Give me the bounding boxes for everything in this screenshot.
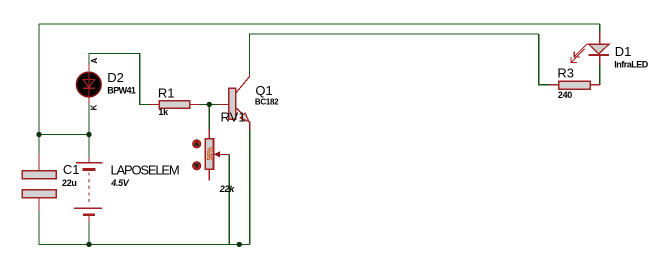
pin D2 cathode [88, 97, 90, 104]
pin D2 anode [88, 64, 90, 71]
pin RV1 top [208, 129, 210, 139]
potentiometer RV1 up button [193, 140, 201, 148]
photodiode D2 internal diode symbol [88, 72, 90, 97]
svg-text:A: A [90, 58, 99, 64]
svg-text:R3: R3 [557, 65, 574, 80]
pin R3 right [590, 84, 600, 86]
pin battery bottom [88, 216, 90, 222]
wire bottom ground rail [39, 243, 250, 245]
wire node to RV1 top [208, 104, 210, 129]
svg-text:RV1: RV1 [221, 109, 246, 124]
svg-text:LAPOSELEM: LAPOSELEM [111, 162, 179, 177]
pin RV1 wiper [216, 153, 229, 155]
svg-text:D1: D1 [615, 44, 632, 59]
transistor Q1 emitter arrow [240, 113, 249, 122]
LED D1 cathode bar [589, 54, 609, 56]
svg-text:K: K [89, 104, 98, 110]
svg-text:C1: C1 [63, 162, 80, 177]
junction node battery/rail [86, 242, 91, 247]
junction node stray on rail [237, 242, 242, 247]
svg-text:D2: D2 [107, 70, 124, 85]
svg-text:22k: 22k [219, 184, 235, 194]
pin Q1 base [219, 103, 229, 105]
wire RV1 wiper down to bottom rail [228, 154, 230, 244]
wire D2 cathode to battery top [88, 104, 90, 157]
wire second rail down to R3 [539, 34, 549, 85]
LED D1 triangle [589, 44, 609, 54]
potentiometer RV1 wiper arrow [214, 152, 220, 157]
svg-text:InfraLED: InfraLED [614, 60, 649, 70]
LED D1 emission arrow 1 [575, 44, 588, 57]
junction node at D2 cathode/battery [86, 132, 91, 137]
svg-text:240: 240 [558, 90, 572, 100]
potentiometer RV1 body [205, 139, 213, 170]
junction node R1/base/RV1 [207, 102, 212, 107]
svg-text:BPW41: BPW41 [107, 85, 136, 95]
svg-text:4.5V: 4.5V [110, 178, 130, 188]
wire LED bottom to R3 right [599, 65, 601, 85]
battery BAT1 LAPOSELEM cell lines [76, 162, 103, 164]
wire Q1 collector up to second rail [250, 34, 539, 73]
svg-text:BC182: BC182 [255, 97, 279, 106]
svg-text:56%: 56% [207, 146, 214, 160]
svg-text:Q1: Q1 [255, 83, 272, 98]
wire C1 bottom to rail [38, 211, 40, 244]
pin D1 cathode [599, 55, 601, 65]
resistor R3 body [559, 81, 590, 89]
pin C1 bottom [38, 198, 40, 211]
transistor Q1 base bar [229, 88, 236, 119]
junction node at C1/link [36, 132, 41, 137]
pin RV1 bottom unconnected [208, 169, 210, 181]
wire left vertical from top rail to C1 [38, 24, 40, 154]
wire top rail VCC [39, 23, 600, 25]
pin Q1 emitter diagonal [235, 107, 244, 116]
wire LED top to rail [599, 24, 601, 33]
pin Q1 collector diagonal [235, 73, 250, 94]
pin C1 top [38, 154, 40, 171]
wire D2 anode to R1 [89, 54, 149, 105]
pin R1 right [190, 103, 200, 105]
wire battery bottom to rail [88, 222, 90, 244]
wire R1 right to Q1 base [200, 103, 219, 105]
resistor R1 body [159, 101, 189, 109]
pin D1 anode [599, 33, 601, 45]
svg-text:22u: 22u [62, 178, 77, 188]
wire link node between C1 line and battery top [39, 134, 89, 136]
pin battery top [88, 157, 90, 163]
photodiode D2 body circle [77, 72, 102, 97]
LED D1 emission arrow 2 [571, 49, 584, 62]
pin R3 left [549, 84, 559, 86]
svg-text:R1: R1 [158, 86, 175, 101]
potentiometer RV1 down button [193, 162, 201, 170]
pin R1 left [149, 103, 159, 105]
wire Q1 emitter down to rail end [249, 130, 251, 244]
capacitor C1 plates [22, 171, 56, 179]
svg-text:1k: 1k [158, 107, 169, 117]
